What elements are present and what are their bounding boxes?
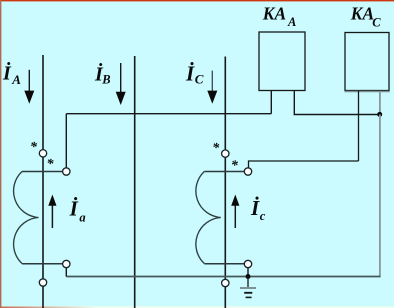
terminal: CT C secondary marked xyxy=(244,168,251,175)
junction dot ground xyxy=(246,274,251,279)
terminal: CT A secondary marked xyxy=(63,168,70,175)
svg-text:A: A xyxy=(287,15,296,29)
terminal: CT A secondary unmarked xyxy=(63,260,70,267)
svg-text:*: * xyxy=(231,159,239,174)
wire: bottom common return xyxy=(66,276,380,278)
svg-text:İ: İ xyxy=(250,196,260,220)
wire: CT-C secondary bottom drop xyxy=(247,268,249,277)
svg-text:KA: KA xyxy=(350,4,374,24)
CT C secondary winding xyxy=(196,172,245,264)
svg-text:KA: KA xyxy=(262,4,286,24)
top red border xyxy=(0,0,394,1)
terminal: phase C lower xyxy=(222,279,229,286)
wire: KA_C lead to CT-C secondary (horizontal) xyxy=(249,161,359,168)
wire: KA_C right lead down to junction xyxy=(379,91,381,115)
svg-text:*: * xyxy=(47,157,55,172)
svg-text:İ: İ xyxy=(69,197,79,221)
svg-text:İ: İ xyxy=(185,61,195,85)
left red border xyxy=(0,0,1,308)
wire: CT-A secondary riser xyxy=(65,114,67,168)
svg-text:a: a xyxy=(79,211,85,225)
terminal: CT A primary marked xyxy=(39,150,46,157)
CT A secondary winding xyxy=(14,172,63,264)
terminal: phase A lower xyxy=(39,279,46,286)
terminal: CT C primary marked xyxy=(222,150,229,157)
svg-text:C: C xyxy=(372,16,381,30)
wire: KA_A left lead down xyxy=(270,91,272,114)
arrow: İc secondary current xyxy=(231,195,239,229)
svg-text:*: * xyxy=(212,141,220,156)
svg-text:A: A xyxy=(11,72,21,87)
relay coil KA_C box xyxy=(345,33,389,91)
relay coil KA_A box xyxy=(259,32,305,91)
arrow: phase A current direction xyxy=(24,70,34,104)
terminal: CT C secondary unmarked xyxy=(244,260,251,267)
svg-text:C: C xyxy=(195,72,204,87)
wire: KA_A right lead to junction dot xyxy=(294,91,377,115)
arrow: İa secondary current xyxy=(48,195,56,229)
ground symbol xyxy=(240,277,256,298)
wire: phase C conductor xyxy=(224,57,226,308)
svg-text:İ: İ xyxy=(2,61,12,85)
svg-text:B: B xyxy=(101,73,110,87)
arrow: phase C current direction xyxy=(207,71,217,104)
wire: CT-A secondary bottom drop xyxy=(65,268,67,277)
wire: KA_C left lead down xyxy=(358,91,360,161)
wire: right return conductor xyxy=(379,115,381,277)
svg-text:*: * xyxy=(30,140,38,155)
bottom pale strip xyxy=(0,306,394,308)
arrow: phase B current direction xyxy=(116,63,126,105)
bottom-left red fade xyxy=(0,307,95,308)
wire: CT-A secondary top to KA_A (horizontal) xyxy=(66,113,271,115)
svg-text:c: c xyxy=(260,209,266,223)
wire: phase A conductor xyxy=(42,55,44,308)
wire: phase B conductor xyxy=(134,56,136,308)
junction dot right xyxy=(377,112,382,117)
